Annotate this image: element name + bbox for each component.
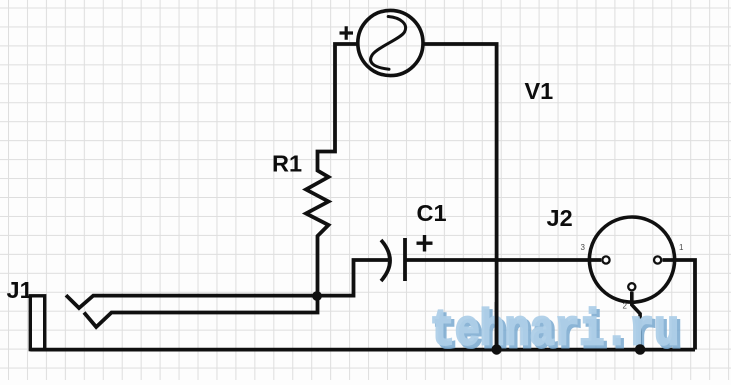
svg-text:3: 3 xyxy=(581,243,586,252)
svg-text:1: 1 xyxy=(679,243,684,252)
svg-text:J2: J2 xyxy=(547,205,573,231)
svg-text:J1: J1 xyxy=(7,277,33,303)
svg-text:2: 2 xyxy=(623,302,628,311)
svg-text:V1: V1 xyxy=(525,78,554,104)
svg-text:C1: C1 xyxy=(417,200,447,226)
svg-text:R1: R1 xyxy=(272,151,302,177)
